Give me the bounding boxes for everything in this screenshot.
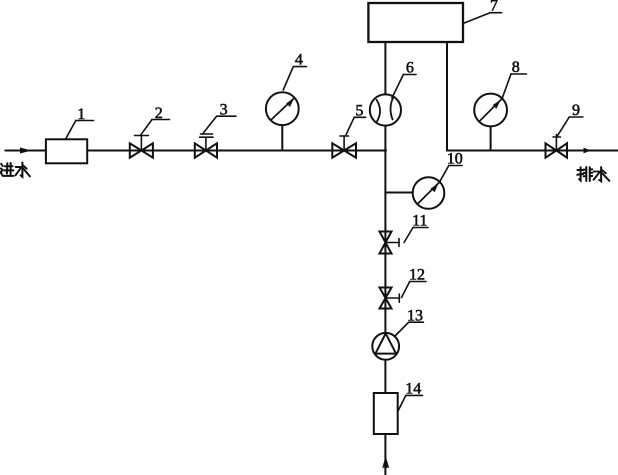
label digits bbox=[77, 0, 580, 397]
svg-text:3: 3 bbox=[220, 102, 228, 119]
flow meter 6 bbox=[370, 94, 401, 125]
svg-text:8: 8 bbox=[512, 59, 520, 76]
label 7 bbox=[463, 13, 502, 24]
valve 12 bbox=[380, 288, 400, 309]
component 1 bbox=[46, 139, 87, 163]
component 14 bbox=[374, 393, 398, 434]
wire center vertical pipe bbox=[384, 42, 386, 475]
label 12 bbox=[402, 282, 427, 298]
valve 5 bbox=[332, 136, 356, 158]
label 1 bbox=[66, 121, 94, 139]
outlet arrow bbox=[584, 148, 591, 154]
pressure gauge 8 bbox=[474, 94, 507, 151]
svg-text:12: 12 bbox=[409, 267, 425, 284]
label 5 bbox=[346, 117, 366, 135]
valve 3 bbox=[195, 134, 217, 158]
valve 2 bbox=[130, 136, 153, 158]
label 2 bbox=[141, 120, 170, 136]
wire right vertical pipe bbox=[446, 42, 448, 151]
svg-text:14: 14 bbox=[405, 381, 421, 398]
tank 7 bbox=[368, 3, 463, 42]
label 3 bbox=[203, 116, 236, 134]
label 9 bbox=[557, 117, 583, 136]
wire main line right bbox=[447, 150, 618, 152]
svg-text:5: 5 bbox=[355, 103, 363, 120]
svg-text:1: 1 bbox=[77, 106, 85, 123]
label 13 bbox=[395, 322, 424, 336]
label 10 bbox=[440, 166, 462, 182]
inlet arrow bbox=[20, 148, 32, 154]
wire main line left bbox=[5, 150, 386, 152]
label 14 bbox=[398, 395, 422, 411]
svg-text:9: 9 bbox=[572, 102, 580, 119]
pressure gauge 10 bbox=[385, 177, 444, 209]
svg-text:7: 7 bbox=[490, 0, 498, 15]
text 排水 outlet bbox=[577, 167, 609, 181]
label 11 bbox=[404, 228, 428, 243]
svg-text:13: 13 bbox=[407, 307, 423, 324]
label 4 bbox=[283, 67, 306, 90]
pump 13 bbox=[372, 333, 399, 360]
svg-text:4: 4 bbox=[295, 52, 303, 69]
svg-text:6: 6 bbox=[406, 60, 414, 77]
valve 9 bbox=[546, 135, 568, 158]
svg-text:2: 2 bbox=[155, 105, 163, 122]
svg-text:11: 11 bbox=[412, 213, 427, 230]
bottom inflow arrow bbox=[382, 456, 389, 468]
label 8 bbox=[502, 74, 526, 98]
svg-text:10: 10 bbox=[447, 151, 463, 168]
pressure gauge 4 bbox=[266, 92, 299, 150]
valve 11 bbox=[380, 232, 400, 254]
text 进水 inlet bbox=[0, 163, 30, 177]
label 6 bbox=[392, 75, 416, 99]
